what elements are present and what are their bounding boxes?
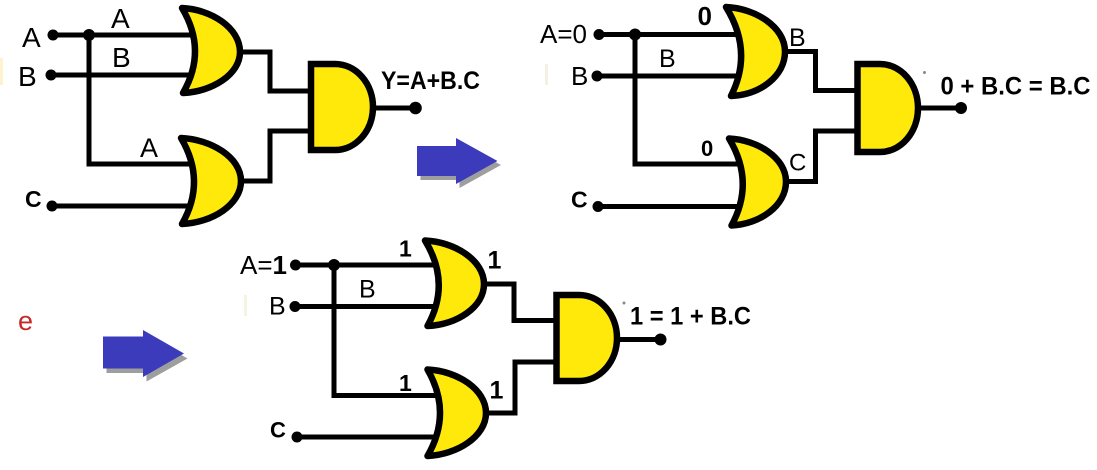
wire C1 to OR2 — [52, 204, 197, 209]
svg-text:0 + B.C = B.C: 0 + B.C = B.C — [941, 73, 1091, 101]
speck artifact 2 — [623, 302, 626, 305]
and-gate AND2 — [858, 64, 919, 152]
arrow 1 shadow — [421, 143, 502, 189]
wire OR1 out to AND1 — [241, 52, 313, 91]
or-gate OR5 — [425, 241, 484, 327]
wire A2 branch horizontal to OR4 — [633, 162, 743, 167]
junction node A2 — [629, 29, 641, 41]
arrow 2 body — [103, 330, 184, 377]
svg-text:0: 0 — [701, 136, 713, 161]
arrow 1 body — [417, 138, 498, 184]
wire OR6 out to AND3 — [487, 362, 558, 413]
wire A3 to OR5 — [296, 263, 440, 268]
and-gate AND3 — [557, 295, 618, 381]
junction node A1 — [83, 29, 95, 41]
svg-text:B: B — [18, 61, 37, 92]
input terminal dot A1 — [48, 30, 59, 41]
wire C3 to OR6 — [297, 435, 442, 440]
or-gate OR6 — [428, 370, 487, 457]
svg-text:1 = 1 + B.C: 1 = 1 + B.C — [630, 303, 751, 331]
wire A2 branch vertical — [633, 35, 638, 167]
svg-text:A=0: A=0 — [540, 19, 587, 49]
input terminal dot C2 — [593, 201, 604, 212]
svg-text:e: e — [18, 306, 33, 336]
input terminal dot B1 — [46, 70, 57, 81]
svg-text:C: C — [270, 418, 286, 443]
or-gate OR4 — [729, 139, 786, 226]
wire B3 to OR5 — [295, 304, 440, 309]
svg-text:0: 0 — [698, 1, 712, 31]
svg-text:C: C — [571, 187, 588, 213]
wire AND1 output — [373, 106, 411, 111]
wire B1 to OR1 — [51, 73, 196, 78]
svg-text:1: 1 — [399, 370, 412, 396]
svg-text:A: A — [111, 3, 130, 34]
svg-text:1: 1 — [399, 236, 412, 262]
wire OR2 out to AND1 — [242, 131, 313, 181]
svg-text:B: B — [659, 45, 676, 73]
svg-text:B: B — [359, 276, 376, 304]
wire OR5 out to AND3 — [485, 284, 558, 321]
junction node A3 — [328, 259, 340, 271]
svg-text:B: B — [789, 24, 806, 52]
svg-text:C: C — [789, 150, 806, 177]
svg-text:A=1: A=1 — [240, 250, 287, 280]
output terminal dot Y — [409, 102, 422, 115]
arrow 2 shadow — [107, 335, 188, 382]
or-gate OR2 — [181, 138, 241, 224]
wire A2 to OR3 — [599, 32, 742, 37]
svg-text:1: 1 — [490, 377, 504, 405]
wire A branch vertical — [87, 35, 92, 167]
output terminal dot circuit 2 — [955, 102, 967, 114]
wire AND3 output — [618, 337, 656, 342]
faint artifact strip 2 — [545, 64, 548, 85]
and-gate AND1 — [311, 64, 373, 150]
svg-text:C: C — [25, 186, 42, 212]
svg-text:1: 1 — [488, 247, 502, 275]
svg-text:A: A — [22, 22, 41, 53]
wire A branch horizontal to OR2 — [87, 162, 198, 167]
input terminal dot B2 — [592, 71, 603, 82]
or-gate OR3 — [726, 7, 785, 96]
input terminal dot A3 — [290, 260, 301, 271]
or-gate OR1 — [182, 8, 240, 93]
svg-text:Y=A+B.C: Y=A+B.C — [381, 67, 480, 95]
speck artifact — [923, 71, 926, 74]
wire AND2 output — [918, 106, 957, 111]
wire OR3 out to AND2 — [786, 52, 859, 91]
input terminal dot A2 — [594, 29, 605, 40]
svg-text:A: A — [140, 133, 158, 163]
svg-text:B: B — [112, 42, 131, 73]
wire A3 branch vertical — [332, 265, 337, 398]
faint artifact strip 3 — [244, 295, 247, 316]
wire A1 to OR1 — [53, 33, 196, 38]
wire C2 to OR4 — [598, 204, 742, 209]
wire A3 branch horizontal to OR6 — [332, 393, 443, 398]
input terminal dot C1 — [47, 201, 58, 212]
input terminal dot C3 — [292, 432, 303, 443]
output terminal dot circuit 3 — [655, 334, 667, 346]
svg-text:B: B — [571, 61, 588, 91]
wire OR4 out to AND2 — [787, 131, 859, 182]
wire B2 to OR3 — [597, 74, 742, 79]
svg-text:B: B — [269, 293, 286, 321]
input terminal dot B3 — [290, 301, 301, 312]
edge artifact sliver — [0, 58, 3, 85]
